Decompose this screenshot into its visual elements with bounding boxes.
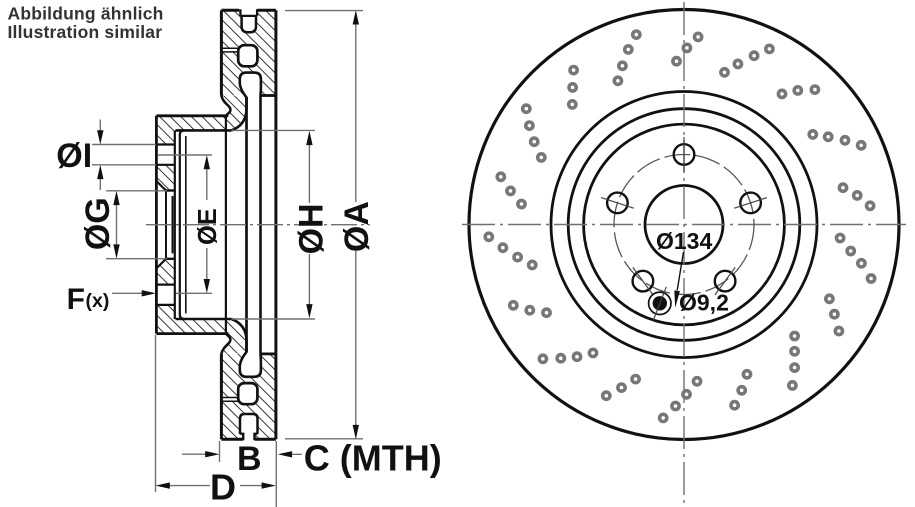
svg-text:Ø134: Ø134 [656,228,712,254]
leader line for 9.2 hole [677,252,683,290]
bolt holes [607,144,761,291]
hat cylinder inner surface [176,129,232,132]
hatch: flange above bolt hole mirror (chamfer) [156,259,174,285]
OG arrows (inside, pointing out) [113,191,119,205]
B extension lines [220,441,277,507]
ring inner edge silhouettes [245,98,248,352]
OH dim line [308,144,310,305]
vent slot bottom (rounded pocket + throat to edge) [240,414,258,442]
hat cylinder outer surface [156,114,228,117]
OI dim verticals [99,120,101,191]
disc outer edge bottom [221,438,276,441]
disc outer edge top [221,9,276,12]
mounting face [155,116,158,334]
center lines [462,2,906,503]
OA extension top/bottom [285,11,363,439]
seam slit between friction ring and hat [220,48,238,52]
svg-text:B: B [237,440,262,478]
hat hook outline [221,96,230,117]
svg-text:ØE: ØE [194,208,222,245]
OH extension lines (silhouette continuation) [232,130,316,319]
centerline left view [146,224,370,226]
svg-text:Abbildung ähnlich: Abbildung ähnlich [8,4,164,24]
friction band circles [551,92,817,358]
hook edge silhouette [225,115,227,335]
hatch: bottom neck + hat cylinder bottom band [156,319,246,353]
svg-text:(x): (x) [86,290,110,312]
inboard plate outer face [220,10,223,439]
OE arrows [204,155,210,169]
C arrow [278,451,292,457]
OI extension lines [92,145,156,165]
bolt hole edges [156,145,174,165]
svg-text:ØH: ØH [293,203,331,254]
channel left wall + arc into hat [232,84,247,130]
OI arrows (outside, pointing in) [97,130,103,144]
D extension line [155,335,157,492]
hat bowl inner face [180,130,185,319]
B dim tails [182,453,302,455]
outboard plate outer face [274,10,277,439]
svg-text:Ø9,2: Ø9,2 [679,290,729,316]
OA dim line [355,24,357,426]
hatch: bottom friction ring [221,354,276,439]
svg-text:ØG: ØG [79,197,117,250]
B arrow (outside, pointing in) [205,451,219,457]
hatch: flange below bolt hole mirror [156,305,174,319]
drilled holes [485,31,875,422]
D dim line [169,485,262,487]
bore edges [166,191,175,259]
vent hole 2 [238,45,257,66]
svg-text:C (MTH): C (MTH) [304,438,442,479]
labels right view [656,228,729,316]
svg-text:Illustration similar: Illustration similar [8,22,163,42]
hatch: flange above bolt hole [156,130,174,144]
svg-text:ØI: ØI [56,137,92,175]
center bore [645,186,723,264]
svg-text:ØA: ØA [338,201,376,252]
F(x) leader [112,292,143,294]
flange inner face [174,130,176,319]
locating pin hole (filled) [649,292,671,314]
outside notch white at neck [204,88,230,115]
hatch: top neck + hat cylinder top band [156,96,246,130]
outboard plate inner face [261,94,276,97]
vent hole 3 + channel white [229,73,261,133]
bolt hole radial ticks [601,137,767,295]
hatch: flange below bolt hole (chamfer) [156,165,174,191]
bore chamfer [156,181,174,191]
hatch: top friction ring [221,10,276,95]
OH arrows [306,131,312,145]
vent hole 3 outline [240,73,261,96]
vent slot top (throat + ledge + main slot) [240,9,257,16]
OG dim line [116,204,118,245]
OE extension lines [158,155,212,293]
D arrows (inside pointing out) [156,482,170,488]
svg-text:D: D [210,467,236,507]
svg-text:F: F [67,283,85,316]
outer circle [469,10,899,440]
OA arrows [353,10,359,24]
OG extension lines [106,191,167,259]
F(x) arrow [142,290,156,296]
bore silhouette lines [165,191,167,259]
OE dim line [206,169,208,280]
